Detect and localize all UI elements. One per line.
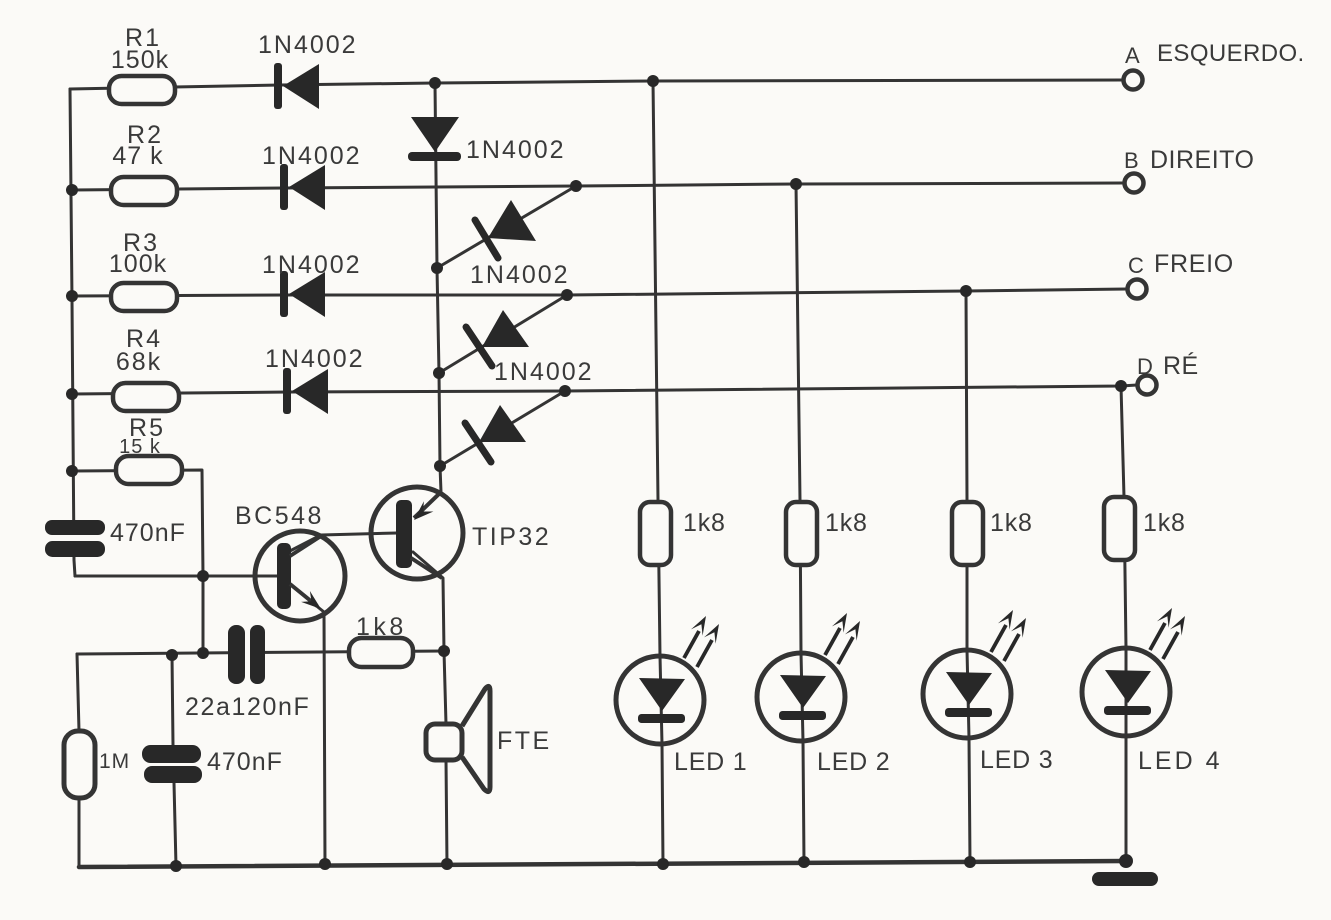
svg-text:DIREITO: DIREITO (1150, 146, 1254, 174)
label D RÉ (1137, 351, 1199, 380)
svg-text:C: C (1128, 253, 1145, 278)
transistor Q1 BC548 (NPN) (255, 531, 345, 621)
svg-text:1k8: 1k8 (825, 509, 868, 537)
svg-text:B: B (1124, 148, 1140, 173)
terminal C (1128, 280, 1147, 299)
resistor R5 15k (116, 414, 182, 484)
wire rail C (to terminal C) (72, 289, 1127, 296)
resistor 1k8 (LED3 column) (952, 502, 983, 565)
svg-text:TIP32: TIP32 (472, 523, 551, 551)
svg-text:FTE: FTE (497, 727, 552, 755)
svg-text:22a120nF: 22a120nF (185, 693, 310, 721)
svg-text:1N4002: 1N4002 (258, 31, 358, 59)
node junction 6 (66, 290, 78, 302)
svg-text:1N4002: 1N4002 (262, 142, 362, 170)
svg-text:BC548: BC548 (235, 502, 324, 530)
capacitor 22a120nF (coupling) (228, 625, 265, 684)
svg-text:1N4002: 1N4002 (466, 136, 566, 164)
svg-text:1M: 1M (99, 750, 130, 773)
svg-text:ESQUERDO.: ESQUERDO. (1157, 40, 1305, 67)
wire vertical line from rail A through 1N4002 to TIP32 emitter (435, 84, 441, 492)
svg-text:15 k: 15 k (119, 436, 161, 458)
terminal D (1138, 376, 1157, 395)
node junction 12 (66, 465, 78, 477)
capacitor 470nF (upper, on supply bus) (45, 520, 105, 557)
label C FREIO (1128, 250, 1234, 278)
wire BC548 emitter to ground rail (290, 584, 325, 866)
resistor 1M (vertical) (64, 731, 95, 798)
diode 1N4002 (diagonal, rail B to bus) (437, 186, 576, 268)
wire rail D (to terminal D) (72, 385, 1137, 394)
node junction 22 (441, 858, 453, 870)
svg-text:D: D (1137, 354, 1154, 379)
ground (1092, 872, 1158, 886)
svg-text:1k8: 1k8 (1143, 509, 1186, 537)
wire branch down through 470nF to ground rail (172, 655, 176, 866)
capacitor 470nF (lower) (142, 745, 202, 783)
node junction 23 (657, 858, 669, 870)
speaker FTE (426, 686, 490, 791)
svg-text:47 k: 47 k (112, 142, 163, 170)
label A ESQUERDO. (1125, 40, 1305, 68)
LED4 (1082, 608, 1185, 736)
wire base node horizontal to BC548 base (75, 575, 277, 578)
node junction 18 (197, 647, 209, 659)
node junction 7 (561, 289, 573, 301)
node junction 2 (647, 75, 659, 87)
wire left supply bus (vertical) (70, 89, 75, 576)
terminal B (1125, 174, 1144, 193)
node junction ground column (1119, 854, 1133, 868)
diode D-B (1N4002, pointing left) (280, 164, 325, 210)
wire LED1 column (653, 81, 663, 864)
node junction 11 (1115, 380, 1127, 392)
resistor 1k8 (LED1 column) (640, 502, 671, 565)
svg-text:LED 2: LED 2 (817, 748, 890, 776)
diode D-D (1N4002, pointing left) (283, 368, 328, 414)
node junction 19 (438, 645, 450, 657)
node junction 13 (431, 262, 443, 274)
resistor 1k8 (LED2 column) (786, 502, 817, 565)
svg-text:1k8: 1k8 (990, 509, 1033, 537)
svg-text:A: A (1125, 43, 1141, 68)
svg-text:100k: 100k (109, 250, 167, 278)
svg-text:1N4002: 1N4002 (494, 358, 594, 386)
node junction 21 (319, 858, 331, 870)
diode D-C (1N4002, pointing left) (280, 271, 325, 317)
svg-text:LED 3: LED 3 (980, 746, 1053, 774)
node junction 1 (429, 77, 441, 89)
node junction 9 (66, 388, 78, 400)
resistor 1k8 (horizontal, to speaker node) (349, 638, 413, 667)
node junction 17 (166, 649, 178, 661)
wire TIP32 collector node through FTE to ground rail (444, 651, 447, 864)
svg-text:LED 4: LED 4 (1138, 747, 1222, 775)
svg-text:1N4002: 1N4002 (470, 261, 570, 289)
node junction 4 (570, 180, 582, 192)
wire LED3 column (966, 291, 970, 862)
svg-text:470nF: 470nF (207, 748, 283, 776)
wire ground rail (bottom) (79, 861, 1126, 867)
diode 1N4002 (vertical, pointing down) (408, 117, 461, 161)
svg-text:1k8: 1k8 (683, 509, 726, 537)
node junction 8 (960, 285, 972, 297)
node junction 10 (559, 385, 571, 397)
resistor R3 100k (109, 229, 177, 311)
LED1 (616, 616, 719, 744)
resistor R4 68k (113, 325, 179, 411)
wire R5 row and vertical to base node (72, 470, 203, 654)
svg-text:LED 1: LED 1 (674, 748, 747, 776)
svg-text:470nF: 470nF (110, 519, 186, 547)
node junction 16 (197, 570, 209, 582)
resistor 1k8 (LED4 column) (1104, 497, 1135, 560)
node junction 20 (170, 860, 182, 872)
wire left branch down to 1M and ground rail (77, 654, 79, 867)
diode 1N4002 (diagonal, rail D to bus) (440, 391, 565, 466)
diode 1N4002 (diagonal, rail C to bus) (439, 295, 567, 373)
wire rail B (to terminal B) (72, 183, 1124, 190)
svg-text:68k: 68k (116, 348, 162, 376)
wire rail A (to terminal A) (70, 80, 1123, 89)
svg-text:FREIO: FREIO (1154, 250, 1234, 278)
resistor R1 150k (109, 24, 175, 104)
wire TIP32 collector down to 1k8 node (413, 552, 444, 651)
label B DIREITO (1124, 146, 1254, 174)
wire LED2 column (796, 184, 804, 862)
svg-text:150k: 150k (111, 46, 169, 74)
resistor R2 47k (111, 121, 177, 205)
node junction 15 (434, 460, 446, 472)
svg-text:1k8: 1k8 (356, 613, 407, 641)
node junction 14 (433, 367, 445, 379)
svg-text:1N4002: 1N4002 (262, 251, 362, 279)
node junction 5 (790, 178, 802, 190)
wire BC548 collector to TIP32 base (286, 533, 397, 553)
node junction 24 (798, 856, 810, 868)
LED3 (923, 610, 1026, 738)
wire coupling row: cap 22-120nF to 1k8 to TIP32 collector node (77, 651, 444, 654)
svg-text:RÉ: RÉ (1163, 351, 1199, 380)
node junction 3 (66, 184, 78, 196)
LED2 (757, 613, 860, 741)
node junction 25 (964, 856, 976, 868)
wire LED4 column (1121, 386, 1126, 861)
svg-text:1N4002: 1N4002 (265, 345, 365, 373)
transistor Q2 TIP32 (PNP) (371, 487, 463, 579)
terminal A (1124, 71, 1143, 90)
diode D-A (1N4002, pointing left) (274, 63, 319, 109)
